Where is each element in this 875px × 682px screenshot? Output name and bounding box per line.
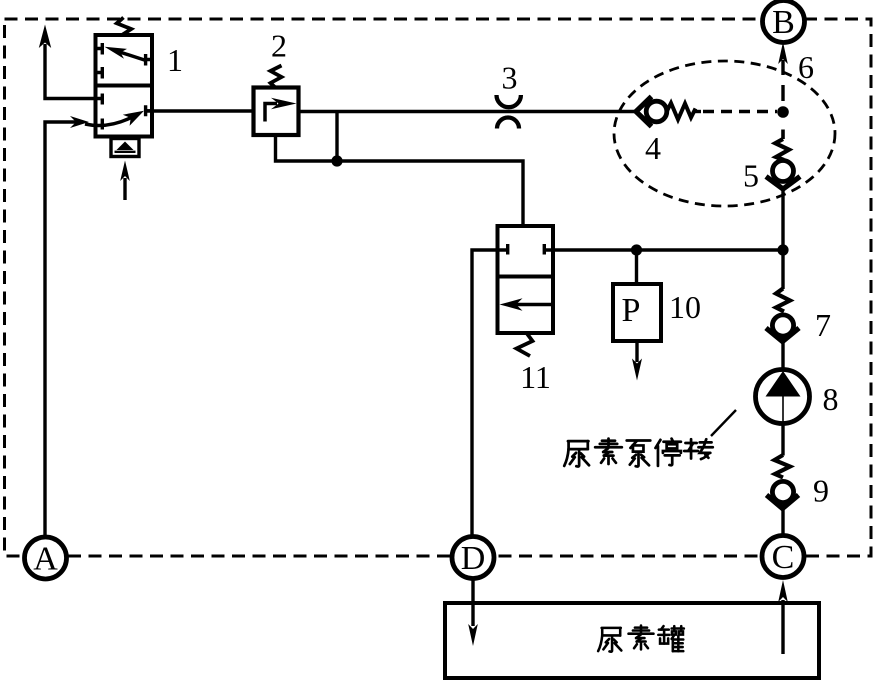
wire from A riser to valve 1 inlet [45,122,78,537]
dashed ellipse around valves 4 and 5 [614,61,835,206]
wire D to tank with down arrow [471,578,474,626]
urea tank box [445,603,819,678]
wire P sensor drain with down arrow [635,341,638,362]
tank label text "尿素罐" (urea tank) [598,628,621,652]
junction node pump column [777,244,788,255]
junction node on branch line [331,155,342,166]
wire main line valve1 to valve2 [146,109,254,112]
dashed wire check4 to junction [703,110,777,114]
svg-text:4: 4 [645,130,661,166]
check valve 5 spring [775,139,789,160]
wire left to valve 11 [472,250,506,536]
valve 1 port ticks [96,43,153,130]
check valve 5 seat [766,177,800,190]
svg-text:2: 2 [271,28,287,64]
valve 11 body [498,226,554,333]
wire tank to C with up arrow [781,600,784,654]
valve 1 spring top [117,18,131,36]
svg-text:D: D [461,540,486,577]
wire check7 seat to pump [781,342,784,370]
wire stub after check valve 4 spring [694,110,701,113]
valve 1 upper arrow [113,50,146,61]
annotation text "尿素泵停转" (urea pump stopped) [564,441,589,466]
check valve 7 spring [776,289,790,312]
svg-text:3: 3 [502,60,518,96]
check valve 9 seat [767,495,799,509]
leader line to pump [711,410,736,436]
svg-text:B: B [772,4,795,41]
check valve 4 ball [646,101,667,122]
node A circle [25,537,67,579]
valve 1 pilot arrow below [123,178,126,200]
wire branch down from main line [335,112,338,162]
svg-text:P: P [622,292,641,329]
valve 2 pressure regulator body [254,88,299,136]
wire valve 11 right to pump column [546,248,783,251]
wire pump to spring9 [781,424,784,456]
svg-text:8: 8 [823,381,839,417]
pump 8 triangle [766,371,801,397]
svg-text:1: 1 [167,42,183,78]
valve 1 pilot box [111,139,139,157]
pressure sensor P box [613,284,661,341]
wire main line valve2 to check valve 4 [299,110,637,113]
node D circle [452,537,494,579]
wire exhaust vertical with up arrow [45,44,101,99]
throttle 3 upper arc [497,95,521,107]
wire check5 seat down through junction to spring7 [781,189,784,289]
wire check9 seat to C [781,509,784,536]
svg-text:6: 6 [798,49,814,85]
svg-text:10: 10 [669,289,701,325]
svg-text:A: A [33,540,58,577]
valve 1 pilot triangle [117,142,134,151]
svg-text:9: 9 [813,473,829,509]
check valve 9 ball [772,481,793,502]
pump 8 circle [756,370,810,424]
junction node at P branch [631,244,642,255]
check valve 5 ball [773,161,794,182]
valve 11 port ticks [508,244,545,255]
dashed system boundary frame [5,19,872,556]
svg-text:C: C [772,539,795,576]
wire valve2 bottom to valve 11 top [276,135,524,226]
valve 11 spring below [517,333,533,356]
check valve 4 seat [636,97,652,127]
valve 1 body [96,35,153,137]
svg-text:5: 5 [743,158,759,194]
valve 1 lower curved arrow [85,115,136,126]
check valve 4 spring [667,103,696,120]
arrowhead inlet into valve 1 [70,116,89,128]
check valve 9 spring [775,455,791,478]
svg-text:11: 11 [520,359,551,395]
dashed wire up to B with arrow [781,60,784,101]
check valve 7 ball [772,315,793,336]
valve 11 internal arrow [514,303,553,306]
pump 8 shaft line [782,397,784,422]
node C circle [762,536,804,578]
svg-text:7: 7 [815,307,831,343]
valve 2 spring top [271,66,282,88]
wire branch to pressure sensor P [635,250,638,284]
check valve 7 seat [766,328,799,342]
dashed wire junction down to spring5 [781,130,785,140]
node B circle [763,1,805,43]
junction node dashed lines B [777,106,789,118]
throttle 3 lower arc [497,118,519,129]
valve 2 internal arrow [265,104,277,122]
